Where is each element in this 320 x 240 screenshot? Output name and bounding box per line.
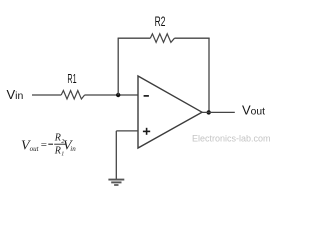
svg-text:R: R bbox=[54, 133, 61, 144]
op-amp inverting pin '-' bbox=[144, 95, 149, 97]
wire non-inverting input to ground bbox=[115, 131, 117, 180]
wire feedback right vertical bbox=[208, 38, 210, 112]
svg-text:in: in bbox=[70, 145, 76, 153]
wire Vin to R1 bbox=[32, 94, 61, 96]
op-amp non-inverting pin '+' bbox=[143, 128, 150, 135]
svg-text:R: R bbox=[54, 146, 61, 157]
junction node output bbox=[207, 110, 211, 114]
resistor R2 bbox=[150, 34, 174, 43]
svg-text:=: = bbox=[41, 139, 47, 151]
wire R1 to op-amp inverting input bbox=[85, 94, 138, 96]
wire non-inverting input horizontal bbox=[116, 130, 138, 132]
svg-text:R1: R1 bbox=[67, 71, 76, 86]
wire output bbox=[202, 111, 235, 113]
junction node inverting input bbox=[116, 93, 120, 97]
formula Vout = -R2/R1 Vin bbox=[21, 133, 76, 158]
svg-text:Electronics-lab.com: Electronics-lab.com bbox=[192, 133, 271, 143]
wire feedback top right bbox=[175, 37, 210, 39]
svg-text:R2: R2 bbox=[155, 14, 166, 29]
op-amp U1 bbox=[138, 76, 202, 148]
resistor R1 bbox=[61, 91, 84, 100]
svg-text:out: out bbox=[30, 145, 40, 153]
wire feedback top left bbox=[118, 37, 151, 39]
wire feedback left vertical bbox=[117, 38, 119, 95]
svg-text:Vin: Vin bbox=[7, 87, 24, 102]
ground bbox=[108, 180, 124, 185]
